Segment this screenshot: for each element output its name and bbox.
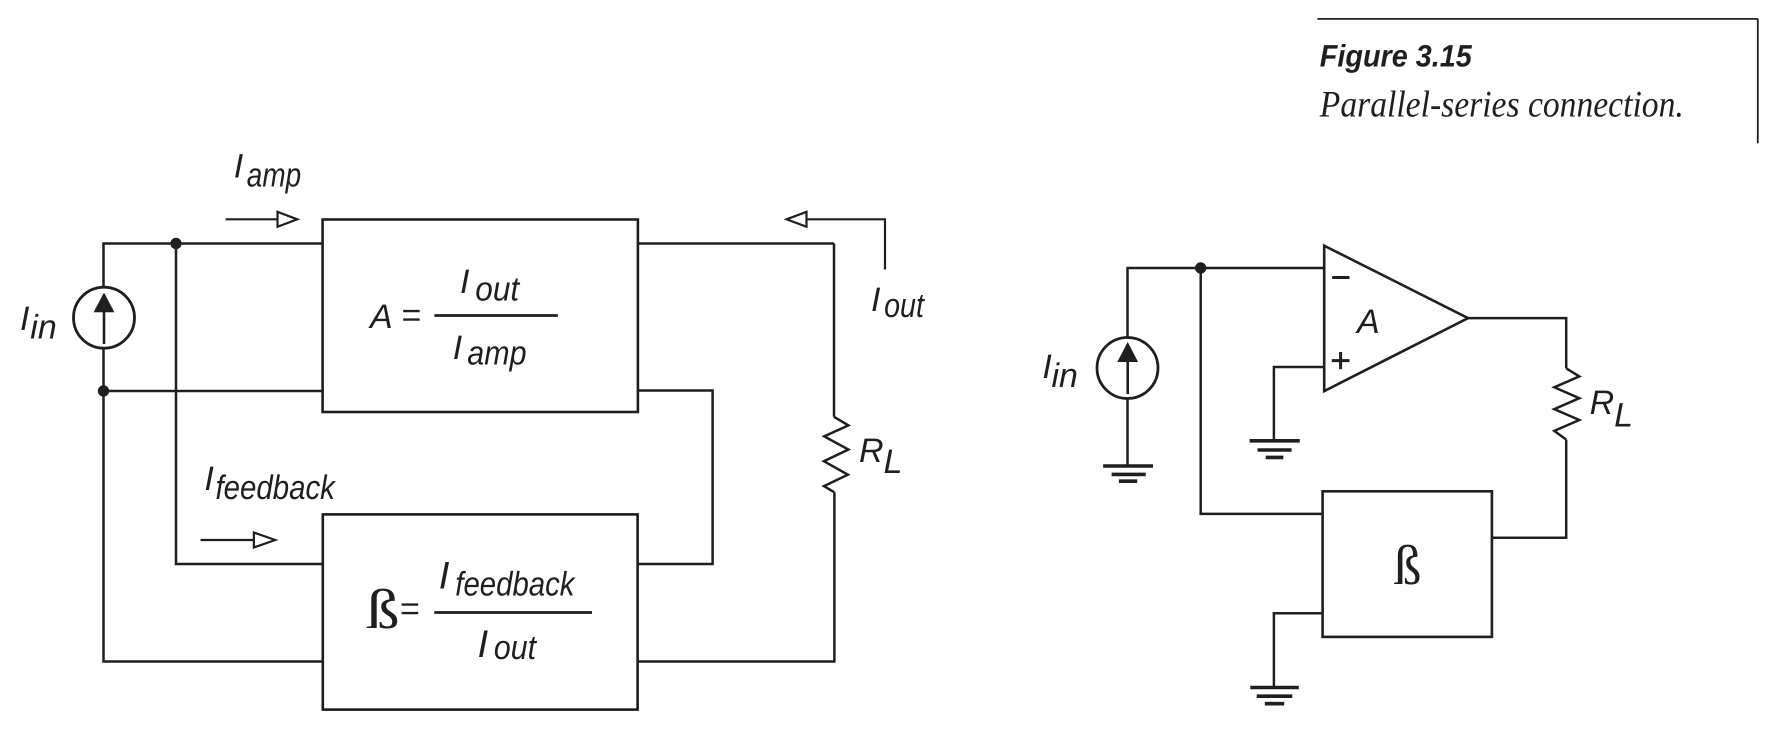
svg-text:feedback: feedback [455,566,576,604]
resistor R_L (left diagram) [824,417,849,493]
wire: left source top up and right to amplifier A input [104,244,323,288]
svg-text:L: L [884,443,903,481]
arrow I_feedback [201,533,276,548]
svg-text:I: I [204,460,214,498]
caption top rule [1318,18,1758,20]
junction dot right input node [1195,262,1206,273]
wire: down to load resistor [833,244,836,417]
feedback block beta (left diagram) [323,514,638,709]
wire: A lower output looped down to feedback block right side [638,391,713,565]
svg-text:R: R [1590,384,1615,422]
arrow I_out (bent) [787,212,885,270]
plus sign at non-inverting input [1332,352,1350,369]
ground under right source [1103,466,1153,481]
svg-text:=: = [401,297,421,335]
wire: right source bottom to ground [1126,399,1129,467]
wire: input node down to feedback block input [176,244,323,565]
svg-text:I: I [439,555,450,598]
arrow I_amp [226,212,298,227]
resistor R_L (right diagram) [1554,368,1579,439]
svg-text:ß: ß [1394,535,1422,597]
formula: fraction bar [434,611,592,614]
ground at op-amp non-inverting input [1250,441,1300,458]
svg-text:I: I [234,148,244,186]
caption right rule [1757,19,1759,143]
svg-text:in: in [1052,357,1078,395]
svg-text:R: R [859,432,884,470]
junction dot at lower node [98,385,109,396]
svg-text:A: A [368,298,393,336]
minus sign at inverting input [1332,276,1349,279]
svg-text:amp: amp [247,157,301,195]
svg-text:ß: ß [366,579,400,641]
wire: node down and right to beta network input [1201,268,1323,514]
svg-text:I: I [453,329,463,367]
wire: non-inverting input to ground [1274,367,1324,441]
svg-text:L: L [1614,396,1633,434]
beta network block (right diagram) [1323,491,1492,637]
wire: right source top up and right to op-amp inverting input [1128,268,1325,338]
wire: load bottom to feedback block output [638,492,835,661]
svg-text:in: in [30,309,56,347]
wire: left rail down to bottom return and right to feedback block [104,391,323,662]
wire: beta block lower terminal to ground [1274,613,1323,687]
svg-text:out: out [884,287,925,325]
op-amp A [1324,246,1468,391]
svg-text:feedback: feedback [216,469,337,507]
junction dot at input node [170,238,181,249]
formula: fraction bar [434,314,558,317]
svg-text:out: out [475,271,520,309]
svg-text:I: I [871,281,881,319]
current source I_in (left diagram) [74,287,135,348]
formula beta = I_feedback / I_out : beta [366,579,400,641]
svg-text:Parallel-series connection.: Parallel-series connection. [1319,85,1684,126]
svg-text:out: out [494,629,537,667]
amplifier block A [323,220,638,413]
wire: op-amp output right and down to R_L [1468,318,1566,368]
svg-text:Figure 3.15: Figure 3.15 [1320,39,1473,74]
svg-text:I: I [20,300,30,338]
svg-text:=: = [400,590,420,628]
ground under beta network [1250,688,1299,704]
wire: A output to load (top) [638,242,834,245]
svg-text:A: A [1355,303,1380,341]
wire: R_L bottom down and left to beta block output [1492,440,1566,538]
svg-text:amp: amp [467,335,526,373]
wire: left source bottom down to lower node and right to A lower terminal [104,348,323,391]
svg-text:I: I [460,263,470,301]
current source I_in (right diagram) [1097,338,1158,399]
svg-text:I: I [478,623,489,666]
